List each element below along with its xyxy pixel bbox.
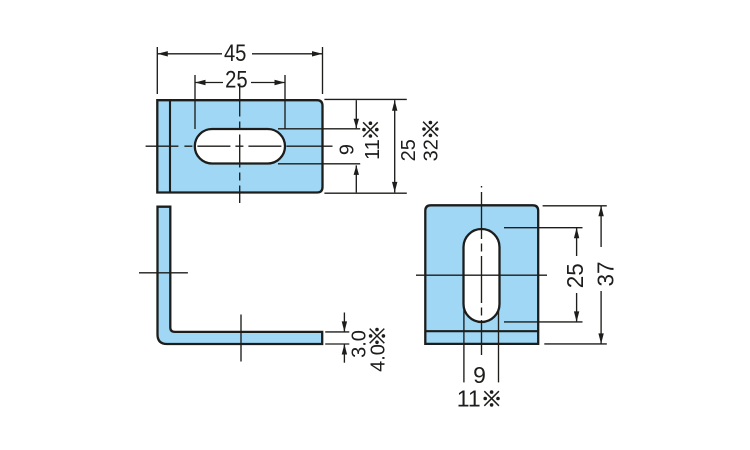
extension line right bottom edge [324,192,406,194]
reference mark for 32 [422,121,438,137]
arrow 45 left [157,51,168,56]
extension line 37 bottom [544,343,607,345]
label 32 rotated [421,139,443,161]
dimension line 45 [157,53,222,55]
extension line slot bottom right [504,321,583,323]
dim line 37 [600,206,602,247]
front horizontal centerline [416,274,547,276]
extension line right top edge [324,98,406,100]
front plate outline [425,205,538,344]
label 3.0 rotated [348,330,370,358]
label 9 rotated [336,144,358,155]
arrow 25 left [195,80,206,85]
svg-text:11: 11 [362,139,384,160]
label 25 rotated [398,139,420,161]
arrow 25 right [275,80,286,85]
front bend line [425,330,538,332]
arrow 45 right [312,51,323,56]
reference mark for 11 front [483,390,499,406]
front slot [464,229,500,322]
extension line slot left down [463,309,465,382]
L profile outline [158,207,323,344]
reference mark for 11 [362,121,378,137]
svg-text:9: 9 [473,362,486,388]
extension line slot top right [278,128,360,130]
top-view bend line [169,100,171,192]
dim line 25 front [576,228,578,256]
extension line 25 left [194,75,196,129]
svg-text:11: 11 [457,385,481,411]
extension line slot top right [504,227,583,229]
dim line 25/32 right [394,100,396,192]
extension line slot bottom right [278,163,360,165]
thickness dim lower leader [343,344,345,363]
label 11 rotated [362,139,384,160]
top-view vertical centerline [239,84,241,204]
svg-text:25: 25 [562,263,588,288]
extension line thickness bottom [325,343,349,345]
dimension line 25 [195,82,223,84]
svg-text:32: 32 [421,139,443,161]
svg-text:4.0: 4.0 [367,344,389,372]
extension line thickness top [325,331,349,333]
tick on vertical leg [139,272,188,274]
extension line 37 top [543,205,607,207]
top-view slot [195,129,285,164]
extension line 45 left [156,47,158,94]
dim 9/11 upper leader [355,100,357,128]
svg-text:25: 25 [398,139,420,161]
top-view horizontal centerline [146,145,333,147]
label 4.0 rotated [367,344,389,372]
label 25 front rotated [562,263,588,288]
tick on horizontal leg [240,315,242,362]
extension line slot right down [498,309,500,382]
reference mark for 4.0 [369,328,385,344]
svg-text:9: 9 [336,144,358,155]
dim 9/11 lower leader [355,165,357,192]
extension line 25 right [284,75,286,129]
label 37 rotated [592,262,618,287]
svg-text:45: 45 [224,40,247,67]
front vertical centerline [481,186,483,355]
thickness dim upper leader [343,313,345,332]
top-view plate outline [157,100,322,192]
extension line 45 right [322,47,324,94]
svg-text:25: 25 [225,67,248,94]
svg-text:37: 37 [592,262,618,287]
